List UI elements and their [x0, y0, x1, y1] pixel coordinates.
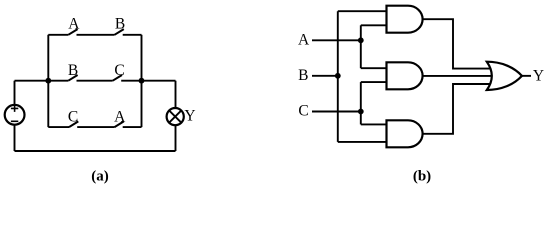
svg-text:A: A [298, 32, 310, 49]
svg-text:B: B [298, 67, 308, 84]
wire: (a) left bus vertical [47, 35, 49, 127]
node: junction dot on B line [335, 73, 341, 79]
switch B (top branch) blade [115, 29, 124, 35]
wire: A to AND G2 upper input [361, 67, 388, 69]
svg-text:(b): (b) [413, 168, 431, 184]
wire: middle branch left segment [48, 80, 68, 82]
wire: bottom branch left segment [48, 126, 69, 128]
switch A (bottom branch) blade [115, 121, 124, 127]
wire: (a) lamp top lead [175, 81, 177, 108]
AND gate G3 (inputs C,B) [387, 120, 423, 147]
wire: (a) lamp bottom lead [175, 125, 177, 151]
wire: (a) bottom return wire [15, 150, 176, 152]
wire: top branch middle segment [77, 34, 115, 36]
wire: G1 output to OR upper input [421, 19, 496, 68]
wire: middle branch middle segment [77, 80, 113, 82]
switch C (middle branch) blade [113, 75, 122, 81]
lamp X cross [169, 111, 181, 123]
node: junction dot on A line [358, 37, 364, 43]
wire: B to AND G3 lower input [338, 141, 388, 143]
wire: top branch right segment [123, 34, 142, 36]
wire: OR output [522, 75, 531, 77]
svg-text:A: A [68, 16, 80, 33]
wire: (a) source bottom lead [14, 125, 16, 151]
wire: B vertical bus to G1 and G3 [337, 11, 339, 142]
wire: C to AND G2 lower input [361, 81, 388, 83]
svg-text:C: C [114, 62, 124, 79]
switch A (top branch) blade [68, 29, 77, 35]
wire: input B horizontal [312, 75, 338, 77]
battery minus sign [11, 120, 18, 122]
svg-text:Y: Y [533, 68, 544, 85]
battery plus sign [11, 105, 18, 112]
wire: B to AND G1 upper input [338, 10, 388, 12]
svg-text:Y: Y [184, 107, 195, 124]
AND gate G1 (inputs B,A) [387, 6, 423, 33]
svg-text:C: C [68, 108, 78, 125]
switch B (middle branch) blade [68, 75, 77, 81]
svg-text:B: B [68, 62, 78, 79]
svg-text:B: B [115, 16, 125, 33]
wire: (a) source top lead [14, 81, 16, 105]
AND gate G2 (inputs A,C) [387, 62, 423, 89]
wire: (a) left feed from source to left bus [15, 80, 49, 82]
lamp Y circle [167, 108, 184, 125]
wire: A to AND G1 lower input [361, 24, 388, 26]
wire: middle branch right segment [121, 80, 141, 82]
wire: input C horizontal [312, 111, 361, 113]
node: junction dot on C line [358, 109, 364, 115]
OR gate U4 [487, 62, 522, 90]
svg-text:A: A [114, 108, 126, 125]
svg-text:(a): (a) [91, 168, 109, 184]
wire: C to AND G3 upper input [361, 123, 388, 125]
node: junction dot right bus / middle branch [139, 78, 145, 84]
wire: (a) right bus vertical [141, 35, 143, 127]
node: junction dot left bus / middle branch [45, 78, 51, 84]
wire: G3 output to OR lower input [421, 84, 496, 134]
battery source V1 circle [5, 105, 25, 125]
switch C (bottom branch) blade [69, 121, 78, 127]
wire: bottom branch middle segment [77, 126, 114, 128]
wire: input A horizontal [312, 39, 361, 41]
wire: (a) lamp feed from right bus [142, 80, 176, 82]
svg-text:C: C [298, 103, 308, 120]
wire: bottom branch right segment [123, 126, 142, 128]
wire: G2 output to OR middle input [421, 75, 496, 77]
wire: A vertical to G1 and G2 [360, 25, 362, 68]
wire: C vertical to G2 and G3 [360, 82, 362, 124]
wire: top branch left segment [48, 34, 68, 36]
